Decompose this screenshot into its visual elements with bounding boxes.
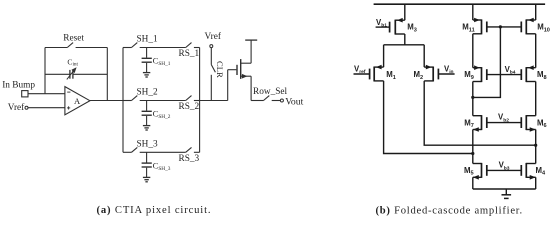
ground under CSH_1 (146, 63, 148, 72)
wire: row 2 middle segment (140, 100, 186, 102)
switch Row_Sel (264, 96, 270, 101)
svg-text:M8: M8 (537, 70, 547, 81)
op-amp A (65, 87, 90, 115)
svg-text:Reset: Reset (63, 34, 84, 44)
wire: feedback left vertical (44, 48, 46, 94)
svg-text:M9: M9 (464, 70, 474, 81)
Vout terminal (280, 99, 283, 102)
svg-text:SH_3: SH_3 (137, 139, 159, 149)
switch SH_1 (132, 43, 138, 48)
svg-text:Vb3: Vb3 (499, 161, 510, 172)
wire: bottom rail (472, 177, 474, 189)
wire: M9 drain to M7 drain (472, 82, 474, 116)
node Vb1 gate lead (376, 26, 390, 28)
svg-text:(a) CTIA pixel circuit.: (a) CTIA pixel circuit. (97, 205, 212, 216)
svg-text:RS_2: RS_2 (179, 102, 200, 112)
wire: M11 drain to M9 source (472, 34, 474, 68)
svg-text:RS_3: RS_3 (179, 154, 200, 164)
wire: source down to Row_Sel (250, 76, 252, 100)
transistor M3 (389, 22, 391, 33)
transistor M2 (437, 69, 439, 80)
switch Reset (67, 43, 73, 48)
node Vb2 gate link (487, 122, 522, 124)
svg-text:RS_1: RS_1 (179, 49, 200, 59)
transistor M_SF (source follower) (227, 70, 229, 101)
svg-text:Cint: Cint (67, 57, 78, 67)
wire: M1 drain to left folded node (384, 81, 473, 154)
wire: tail to M2 source (423, 45, 425, 67)
switch SH_2 (132, 96, 138, 101)
VDD rail (374, 3, 545, 5)
wire: In Bump to op-amp inverting input (28, 93, 65, 95)
svg-text:Vref: Vref (205, 31, 222, 42)
wire: M11-M10 gate link (487, 26, 522, 28)
svg-text:Vb2: Vb2 (498, 113, 509, 124)
svg-text:CSH_3: CSH_3 (153, 161, 171, 173)
svg-text:M5: M5 (464, 166, 474, 177)
wire: Vref to CLR switch (210, 48, 212, 65)
wire: switch to Vout (272, 100, 281, 102)
svg-text:In Bump: In Bump (2, 80, 35, 90)
wire: row 3 left segment (123, 151, 132, 153)
VDD T-bar (245, 39, 257, 41)
wire: bus row 2 to gate riser (200, 100, 228, 102)
wire: CLR switch to bus (210, 75, 212, 101)
node Vin gate lead (438, 73, 454, 75)
wire: M10 drain to M8 source (535, 34, 537, 68)
ground under CSH_2 (146, 116, 148, 125)
switch RS_3 (186, 147, 192, 152)
switch RS_1 (186, 43, 192, 48)
switch CLR (211, 65, 215, 73)
node Vb4 gate link (487, 74, 522, 76)
transistor M10 (520, 22, 522, 33)
node Vref gate lead (354, 73, 370, 75)
source stub with arrow (241, 75, 251, 77)
svg-text:A: A (74, 96, 81, 106)
svg-text:M7: M7 (464, 118, 474, 129)
wire: M6 source to M4 drain (535, 130, 537, 164)
In Bump terminal pad (22, 91, 28, 97)
Vref input terminal (25, 106, 28, 109)
transistor M8 (520, 69, 522, 80)
wire: mirror gate to M9 drain (473, 27, 501, 98)
svg-text:Vref: Vref (8, 102, 25, 113)
wire: feedback right vertical (106, 48, 108, 101)
svg-text:SH_1: SH_1 (137, 35, 159, 45)
svg-text:CLR: CLR (215, 61, 225, 78)
wire: right bus (199, 48, 201, 153)
capacitor Cint (variable) (69, 70, 71, 79)
svg-text:CSH_1: CSH_1 (153, 56, 171, 67)
wire: op-amp output to sampling bus (90, 100, 123, 102)
transistor M4 (520, 165, 522, 176)
svg-text:M4: M4 (536, 166, 547, 177)
svg-text:Vb4: Vb4 (505, 65, 516, 76)
svg-text:CSH_2: CSH_2 (153, 109, 171, 121)
svg-text:(b) Folded-cascode amplifier.: (b) Folded-cascode amplifier. (376, 205, 523, 216)
wire: M3 drain to tail node (404, 34, 406, 45)
transistor M7 (486, 117, 488, 128)
switch SH_3 (132, 147, 138, 152)
ground (505, 189, 507, 195)
wire: Vref to op-amp non-inverting input (28, 107, 65, 109)
transistor M5 (486, 165, 488, 176)
wire: row 1 left segment (123, 47, 132, 49)
switch RS_2 (186, 96, 192, 101)
svg-text:SH_2: SH_2 (137, 88, 159, 98)
wire: M11 source to rail (472, 4, 474, 20)
svg-text:Row_Sel: Row_Sel (253, 87, 288, 97)
wire: tail to M1 source (383, 45, 385, 67)
wire: left sampling bus (122, 48, 124, 153)
wire: M7 source to M5 drain (472, 130, 474, 164)
ground under CSH_3 (146, 168, 148, 177)
svg-text:M10: M10 (537, 23, 550, 34)
transistor M11 (486, 22, 488, 33)
wire: row 3 right segment (194, 151, 200, 153)
capacitor CSH_1 (146, 48, 148, 58)
transistor M1 (369, 69, 371, 80)
svg-text:Vout: Vout (285, 97, 303, 108)
svg-text:M1: M1 (386, 70, 396, 81)
wire: row 2 right segment (194, 100, 200, 102)
node Vb3 gate link (487, 169, 522, 171)
wire: row 2 left segment (123, 100, 132, 102)
wire: row 1 middle segment (140, 47, 186, 49)
wire: row 3 middle segment (140, 151, 186, 153)
capacitor CSH_2 (146, 101, 148, 111)
wire: Cint branch (45, 73, 70, 75)
wire: M2 drain to right folded node (424, 81, 536, 145)
wire: M3 source to rail (404, 4, 406, 20)
svg-text:M3: M3 (407, 23, 417, 34)
svg-text:M2: M2 (414, 70, 424, 81)
wire: M10 source to rail (535, 4, 537, 20)
wire: feedback top branch (45, 47, 67, 49)
transistor M9 (486, 69, 488, 80)
svg-text:M6: M6 (537, 118, 547, 129)
capacitor CSH_3 (146, 152, 148, 162)
svg-text:M11: M11 (462, 23, 474, 34)
wire: M8 drain to M6 drain (535, 82, 537, 116)
transistor M6 (520, 117, 522, 128)
wire: row 1 right segment (194, 47, 200, 49)
